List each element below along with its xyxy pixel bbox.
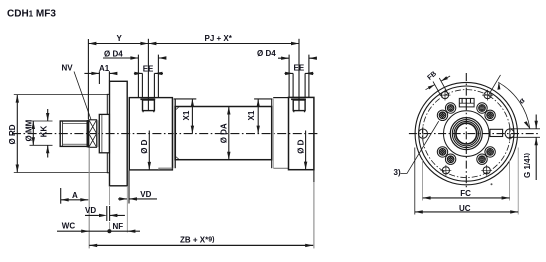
label 3) with leader [394,121,439,177]
dimension D cap [296,131,307,170]
socket screw at 37.5 deg [485,110,495,120]
horizontal centreline [409,133,540,135]
socket screw at 217.5 deg [437,147,447,157]
svg-text:3): 3) [394,168,401,177]
dimension D4 right [257,49,317,60]
svg-text:CDH1 MF3: CDH1 MF3 [7,9,56,20]
FB mounting hole at 241 deg [441,165,452,176]
side hole left [418,127,427,141]
dimension NF with dot [107,186,140,233]
cylinder head [129,98,172,170]
svg-text:EE: EE [143,64,154,73]
rod boss step [99,114,109,152]
title CDH1 MF3 [7,9,56,20]
dimension EE left [134,64,163,75]
dimension X1 right [247,99,272,134]
svg-text:UC: UC [459,204,471,213]
cylinder tube [175,107,271,160]
piston rod [60,120,87,147]
tube-cap joint [272,99,274,169]
dimension UC [415,148,518,215]
port boss on face (top) [459,98,474,107]
svg-text:NV: NV [62,63,74,72]
flange inner circle [419,86,514,181]
svg-text:VD: VD [85,206,96,215]
socket screw at 301.5 deg [477,154,487,164]
svg-text:A: A [72,191,78,200]
svg-text:KK: KK [40,126,49,138]
dimension A1 [84,64,117,84]
svg-text:A1: A1 [99,64,110,73]
cap right extension line [313,170,315,182]
right port thread box [291,97,306,112]
head-tube joint [174,99,175,168]
right port EE bore lines [293,73,305,97]
vertical centreline [465,73,467,188]
FB mounting hole at 61 deg [482,90,493,101]
svg-text:Ø RD: Ø RD [8,124,17,144]
svg-text:FC: FC [460,189,471,198]
svg-text:VD: VD [140,190,151,199]
dimension FC [423,160,510,201]
rod wrench flats NV (crosshatched) [89,120,98,148]
FB mounting hole at 299 deg [481,165,492,176]
dimension D4 left [103,49,166,59]
mounting flange MF3 [110,81,128,186]
svg-text:Ø DA: Ø DA [219,123,228,143]
svg-text:PJ + X*: PJ + X* [205,34,233,43]
right port D4 extension lines [289,55,309,98]
socket screw at 142.5 deg [437,110,447,120]
dimension alpha (angle arc) [489,75,530,129]
bolt circle (dash-dot) [422,90,510,178]
left port EE bore lines [142,73,154,97]
socket screw at 238.5 deg [445,154,455,164]
svg-text:X1: X1 [182,110,191,120]
dimension A [61,148,89,249]
svg-text:X1: X1 [247,110,256,120]
left port thread box [140,98,155,113]
svg-text:Ø MM: Ø MM [24,119,33,141]
svg-text:EE: EE [294,64,305,73]
flange outer circle [415,82,517,184]
dimension MM [24,119,52,145]
dimension PJ + X* [148,34,299,45]
dimension VD head side [118,171,157,204]
socket screw at 322.5 deg [485,147,495,157]
dimension WC [57,222,109,233]
dimension FB [426,70,451,96]
svg-text:WC: WC [62,222,76,231]
dimension DA [219,107,230,160]
svg-text:Ø D4: Ø D4 [104,49,123,58]
rod bush rings [450,118,482,150]
FB mounting hole at 119 deg [440,90,451,101]
dimension EE right [285,64,314,76]
side hole right [505,127,514,141]
svg-text:NF: NF [113,222,124,231]
socket screw at 121.5 deg [445,103,455,113]
centering boss circle [444,111,490,157]
centerline side view [12,133,318,135]
svg-text:Ø D4: Ø D4 [257,49,276,58]
dimension G 1/4 [509,115,540,181]
stray mark below flange [491,183,493,185]
label NV with leader [62,63,92,119]
dimension ZB + X*9) [89,235,313,247]
flange pilot ring [107,94,109,172]
left port D4 extension lines [138,55,158,98]
right port centre extension [298,39,300,98]
dimension VD rod side [85,206,125,221]
socket screw at 58.5 deg [477,103,487,113]
svg-text:Y: Y [117,34,123,43]
dimension RD [8,95,107,173]
svg-text:ZB + X*9): ZB + X*9) [180,235,214,244]
dimension KK [40,109,50,158]
G1/4 port pocket [490,129,503,136]
cylinder cap [289,97,314,169]
dimension D head [140,131,151,170]
svg-text:Ø D: Ø D [140,139,149,153]
cap step ring [273,97,288,99]
left port centre extension [147,39,149,98]
dimension Y [88,34,148,119]
dimension X1 left [174,99,197,134]
svg-text:Ø D: Ø D [296,139,305,153]
